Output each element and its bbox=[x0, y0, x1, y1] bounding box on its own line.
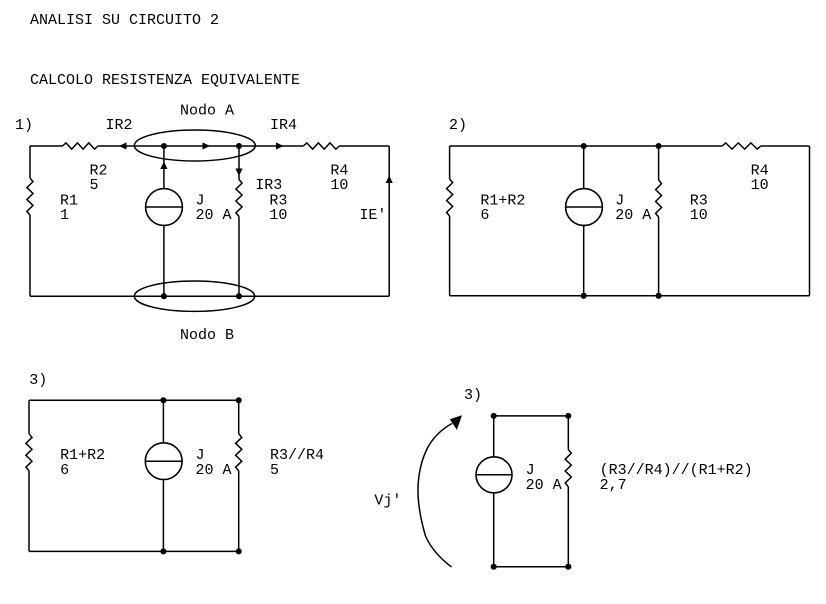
junction dot c2 top R3 bbox=[656, 143, 662, 149]
arrow J up bbox=[160, 162, 167, 170]
arrow IR3 down bbox=[235, 169, 242, 177]
resistor R3//R4 bbox=[236, 434, 242, 471]
junction dot node B right bbox=[236, 293, 242, 299]
current source J circuit2 bbox=[566, 189, 603, 226]
arrow IR2 (left) bbox=[119, 142, 127, 149]
resistor R2 bbox=[63, 143, 99, 149]
svg-text:IR3: IR3 bbox=[255, 177, 282, 194]
node A ellipse bbox=[134, 130, 255, 161]
svg-text:Vj': Vj' bbox=[374, 493, 401, 510]
junction dot c4 top right bbox=[565, 413, 571, 419]
svg-text:1): 1) bbox=[15, 117, 33, 134]
resistor R3 bbox=[236, 180, 242, 217]
resistor R1+R2 bbox=[447, 179, 453, 216]
svg-text:10: 10 bbox=[330, 177, 348, 194]
wire R3 branch lower bbox=[658, 217, 660, 296]
wire bottom bbox=[30, 295, 389, 297]
svg-text:10: 10 bbox=[751, 177, 769, 194]
wire left lower bbox=[449, 216, 451, 296]
junction dot node A left bbox=[161, 143, 167, 149]
current source J circuit3 bbox=[145, 443, 182, 480]
resistor R1+R2 c3 bbox=[26, 434, 32, 471]
svg-text:3): 3) bbox=[29, 372, 47, 389]
junction dot c4 bottom right bbox=[565, 564, 571, 570]
svg-text:1: 1 bbox=[60, 207, 69, 224]
svg-text:CALCOLO RESISTENZA EQUIVALENTE: CALCOLO RESISTENZA EQUIVALENTE bbox=[30, 72, 300, 89]
wire left upper bbox=[449, 146, 451, 179]
wire left (J) c4 bbox=[493, 416, 495, 567]
svg-text:6: 6 bbox=[60, 462, 69, 479]
junction dot c2 top J bbox=[581, 143, 587, 149]
svg-text:2,7: 2,7 bbox=[600, 477, 627, 494]
resistor R4 bbox=[722, 143, 761, 149]
junction dot c2 bottom J bbox=[581, 293, 587, 299]
svg-text:Nodo A: Nodo A bbox=[180, 103, 234, 120]
wire J branch bbox=[163, 146, 165, 296]
wire right bbox=[809, 146, 811, 296]
wire top right segment bbox=[339, 145, 389, 147]
junction dot c4 top left bbox=[491, 413, 497, 419]
svg-text:6: 6 bbox=[480, 207, 489, 224]
wire R3 branch upper bbox=[658, 146, 660, 180]
wire left upper bbox=[28, 400, 30, 434]
wire left side upper bbox=[29, 146, 31, 178]
wire bottom c4 bbox=[494, 566, 569, 568]
wire top bbox=[29, 399, 239, 401]
junction dot c3 bottom J bbox=[160, 548, 166, 554]
svg-text:IE': IE' bbox=[359, 207, 386, 224]
svg-text:Nodo B: Nodo B bbox=[180, 327, 234, 344]
junction dot c3 bottom right bbox=[236, 548, 242, 554]
wire R3 branch upper bbox=[238, 146, 240, 180]
wire left side lower bbox=[29, 215, 31, 296]
svg-text:IR2: IR2 bbox=[106, 117, 133, 134]
svg-text:3): 3) bbox=[464, 387, 482, 404]
arrow IE' up bbox=[386, 176, 393, 184]
wire bottom bbox=[450, 295, 810, 297]
svg-text:ANALISI SU CIRCUITO 2: ANALISI SU CIRCUITO 2 bbox=[30, 12, 219, 29]
svg-text:20 A: 20 A bbox=[526, 477, 562, 494]
wire bottom bbox=[29, 550, 239, 552]
wire top left segment bbox=[30, 145, 63, 147]
wire right lower bbox=[238, 471, 240, 552]
wire top right bbox=[761, 145, 810, 147]
wire right upper c4 bbox=[567, 416, 569, 450]
wire right side bbox=[388, 146, 390, 296]
wire right lower c4 bbox=[567, 487, 569, 567]
svg-text:5: 5 bbox=[90, 177, 99, 194]
current source J (circle with bar) bbox=[146, 189, 183, 226]
arrow mid node A (right) bbox=[203, 142, 211, 149]
wire top c4 bbox=[494, 415, 569, 417]
wire left lower bbox=[28, 471, 30, 552]
curved arrow head bbox=[450, 415, 462, 430]
svg-text:2): 2) bbox=[449, 117, 467, 134]
svg-text:IR4: IR4 bbox=[270, 117, 297, 134]
junction dot c3 top J bbox=[160, 397, 166, 403]
svg-text:10: 10 bbox=[269, 207, 287, 224]
resistor R4 bbox=[303, 143, 339, 149]
svg-text:20 A: 20 A bbox=[615, 207, 651, 224]
wire top bbox=[450, 145, 723, 147]
current source J circuit4 bbox=[476, 457, 512, 493]
junction dot c4 bottom left bbox=[491, 564, 497, 570]
node B ellipse bbox=[134, 281, 254, 311]
resistor (R3//R4)//(R1+R2) bbox=[565, 450, 571, 487]
arrow IR4 (right) bbox=[276, 142, 284, 149]
junction dot c2 bottom R3 bbox=[656, 293, 662, 299]
junction dot node A right bbox=[236, 143, 242, 149]
wire R3 branch lower bbox=[238, 217, 240, 297]
svg-text:5: 5 bbox=[270, 462, 279, 479]
wire J branch c3 bbox=[162, 400, 164, 551]
svg-text:20 A: 20 A bbox=[196, 462, 232, 479]
junction dot c3 top right bbox=[236, 397, 242, 403]
wire top middle segment bbox=[98, 145, 303, 147]
resistor R1 bbox=[27, 178, 33, 215]
wire right upper bbox=[238, 400, 240, 434]
wire J branch bbox=[583, 146, 585, 296]
junction dot node B left bbox=[161, 293, 167, 299]
svg-text:10: 10 bbox=[690, 207, 708, 224]
curved arrow Vj' bbox=[418, 424, 452, 568]
resistor R3 bbox=[656, 180, 662, 217]
svg-text:20 A: 20 A bbox=[196, 207, 232, 224]
